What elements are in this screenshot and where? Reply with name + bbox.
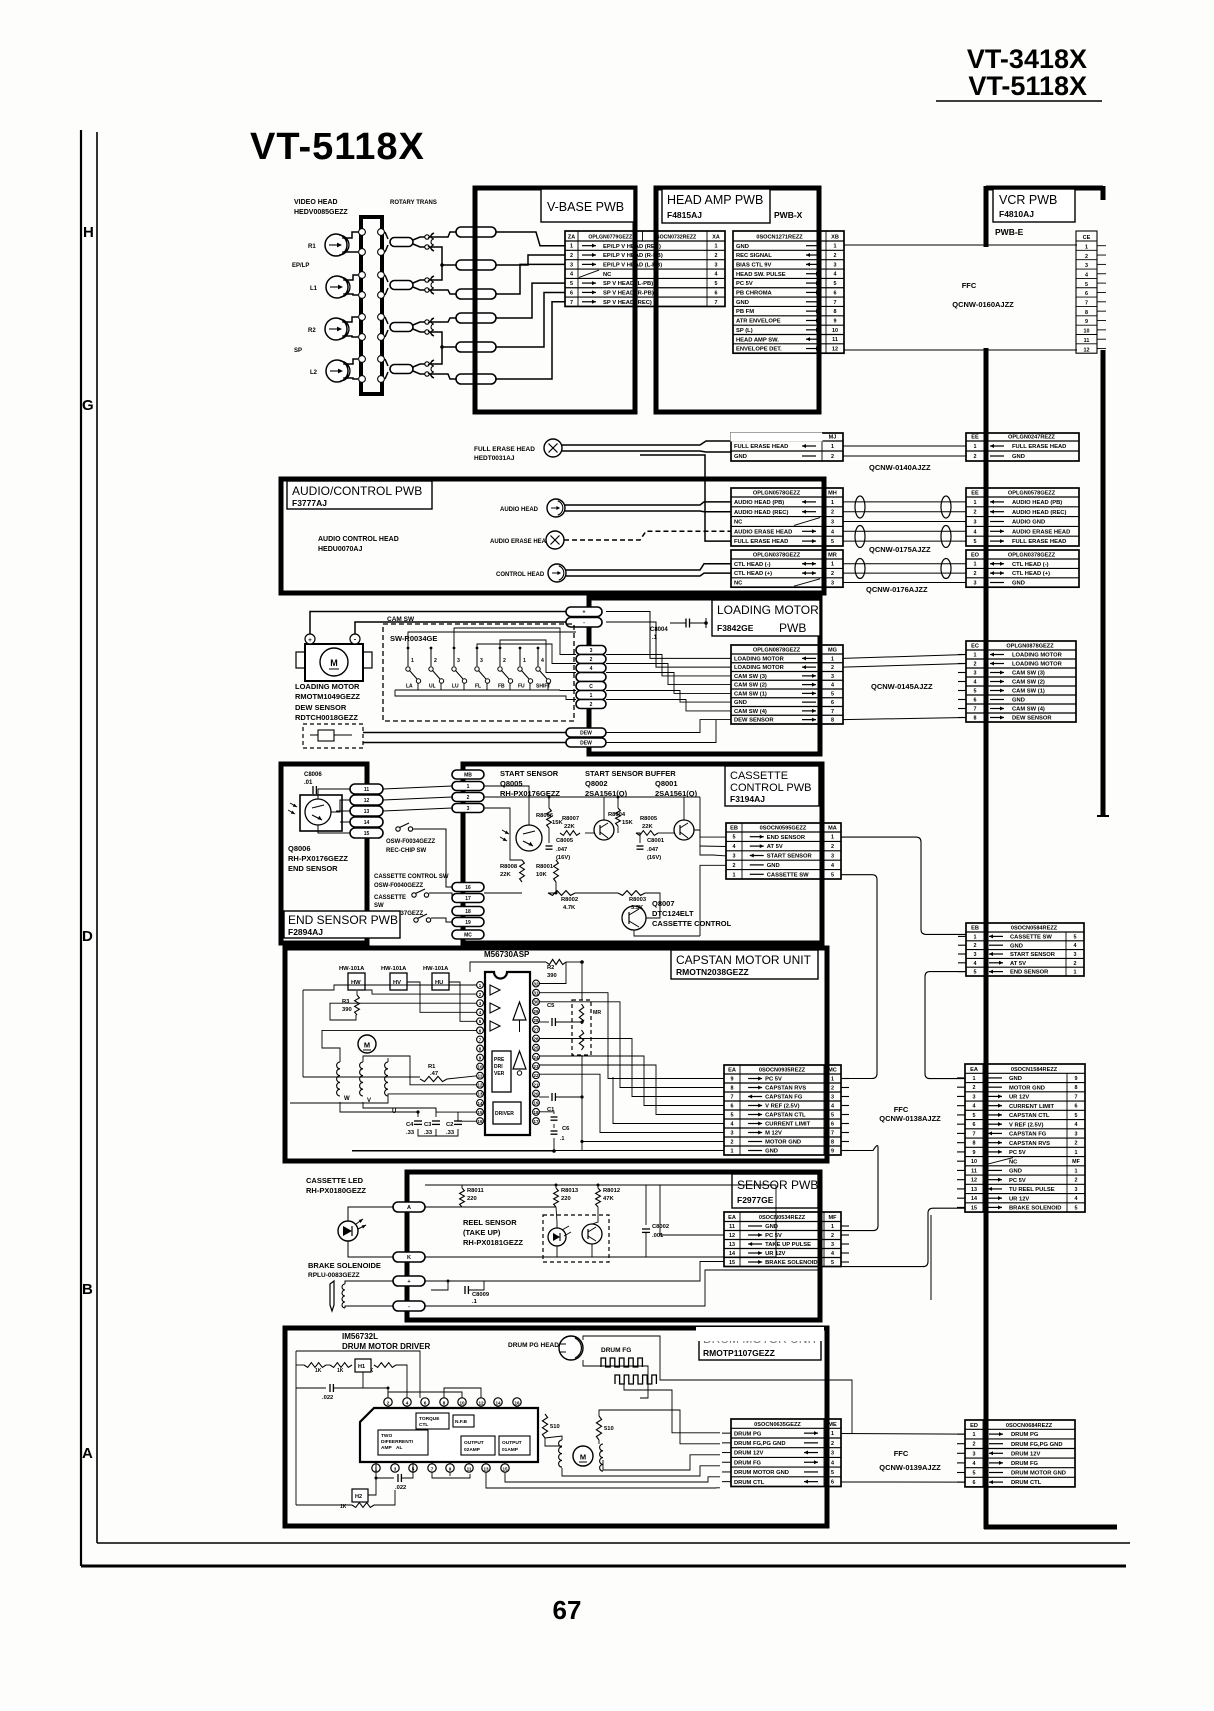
svg-text:5: 5 [731,1113,734,1119]
svg-text:9: 9 [1075,1076,1078,1082]
svg-text:2: 2 [590,702,593,708]
svg-text:5: 5 [831,1113,834,1119]
svg-text:DEW SENSOR: DEW SENSOR [1012,716,1052,722]
svg-text:TWO: TWO [381,1433,392,1439]
svg-text:11: 11 [467,1466,472,1471]
svg-text:31: 31 [534,991,539,996]
svg-text:2: 2 [831,1441,834,1447]
capstan IC pins left [477,982,484,989]
svg-text:.33: .33 [424,1130,433,1136]
rotary transformer windings [425,235,429,239]
svg-text:EP/LP: EP/LP [292,263,309,269]
wires control head to table MR [566,564,731,570]
svg-text:NC: NC [1009,1159,1018,1165]
svg-text:PC 5V: PC 5V [765,1077,782,1083]
svg-text:NC: NC [734,520,743,526]
svg-text:3: 3 [974,952,977,958]
svg-text:.001: .001 [652,1233,664,1239]
connector pills end sensor PWB 11-15 [350,784,383,794]
connector table EC (OPLGN0878GEZZ) [958,641,1076,722]
svg-text:OPLGN0878GEZZ: OPLGN0878GEZZ [753,648,801,654]
svg-text:HW-101A: HW-101A [423,966,449,972]
svg-text:AUDIO GND: AUDIO GND [1012,520,1045,526]
svg-text:16: 16 [514,1400,520,1405]
svg-text:REEL SENSOR: REEL SENSOR [463,1218,517,1227]
svg-text:MJ: MJ [829,435,837,441]
svg-text:A: A [82,1445,93,1462]
svg-text:1: 1 [831,1224,834,1230]
svg-text:2: 2 [733,863,736,869]
svg-text:7: 7 [974,707,977,713]
svg-text:GND: GND [736,300,749,306]
svg-text:MC: MC [464,932,472,938]
svg-text:14: 14 [478,1101,483,1106]
svg-text:CASSETTE SW: CASSETTE SW [1010,935,1052,941]
svg-text:3: 3 [394,1466,397,1471]
svg-text:CAPSTAN MOTOR UNIT: CAPSTAN MOTOR UNIT [676,953,812,967]
svg-text:SW-R0034GE: SW-R0034GE [390,634,437,643]
svg-text:H1: H1 [358,1364,365,1370]
svg-text:.33: .33 [446,1130,455,1136]
svg-text:5: 5 [831,1470,834,1476]
svg-text:C8001: C8001 [647,838,665,844]
svg-text:R8007: R8007 [562,816,579,822]
transistor Q8002 [594,820,614,840]
svg-text:1: 1 [731,1149,734,1155]
svg-text:GND: GND [1012,698,1025,704]
svg-text:DRUM PG HEAD: DRUM PG HEAD [508,1342,559,1349]
svg-text:DEW SENSOR: DEW SENSOR [295,703,347,712]
svg-text:01AMP: 01AMP [502,1447,519,1453]
label box CAPSTAN MOTOR UNIT RMOTN2038GEZZ [671,950,818,979]
block CAPSTAN MOTOR UNIT [285,948,827,1161]
svg-text:CASSETTE: CASSETTE [374,895,406,901]
wires video heads to drum ladder [345,232,358,238]
svg-text:4: 4 [973,1104,976,1110]
svg-text:GND: GND [1010,943,1023,949]
svg-text:M: M [330,658,338,668]
svg-text:START SENSOR: START SENSOR [500,769,559,778]
connector table EO (OPLGN0378GEZZ) [966,550,1079,587]
capstan internal wires [303,985,477,990]
svg-text:4: 4 [831,529,834,535]
svg-text:2: 2 [731,1140,734,1146]
svg-text:9: 9 [1085,319,1088,325]
svg-text:B: B [82,1281,93,1298]
svg-text:ZA: ZA [568,235,575,241]
svg-text:ROTARY TRANS: ROTARY TRANS [390,200,437,206]
svg-text:AUDIO HEAD (PB): AUDIO HEAD (PB) [734,500,784,506]
svg-text:32: 32 [534,981,539,986]
svg-text:.047: .047 [647,847,658,853]
svg-text:NC: NC [603,272,612,278]
FFC ribbon white mask [980,247,992,348]
svg-text:AMP: AMP [381,1445,392,1451]
svg-text:L2: L2 [310,370,318,376]
capstan wires to table EA [539,993,724,1079]
connector table EA (0SOCN1584REZZ) [957,1064,1085,1212]
svg-text:CAPSTAN FG: CAPSTAN FG [765,1095,803,1101]
svg-text:11: 11 [1084,338,1090,344]
connector pills sensor PWB [393,1202,425,1212]
svg-text:390: 390 [342,1007,352,1013]
svg-text:4.7K: 4.7K [563,905,576,911]
svg-text:EB: EB [971,926,979,932]
svg-text:0SOCN0584REZZ: 0SOCN0584REZZ [1011,926,1058,932]
label box END SENSOR PWB F2894AJ [284,911,400,938]
svg-text:CAPSTAN CTL: CAPSTAN CTL [1009,1113,1050,1119]
drum IC inner blocks [416,1413,449,1429]
svg-text:OPLGN0578GEZZ: OPLGN0578GEZZ [1008,491,1056,497]
svg-text:3: 3 [974,520,977,526]
svg-text:6: 6 [831,700,834,706]
svg-text:R8011: R8011 [467,1188,485,1194]
label box SENSOR PWB F2977GE [732,1174,818,1208]
svg-text:BRAKE SOLENOID: BRAKE SOLENOID [1009,1206,1062,1212]
capacitor .022 bottom and H2 [352,1489,368,1502]
svg-text:OPLGN0247REZZ: OPLGN0247REZZ [1008,435,1056,441]
svg-text:GND: GND [765,1224,778,1230]
svg-text:12: 12 [478,1083,483,1088]
svg-text:MOTOR GND: MOTOR GND [1009,1085,1045,1091]
svg-text:9: 9 [449,1466,452,1471]
svg-text:OUTPUT: OUTPUT [502,1440,522,1446]
svg-text:EP/LP V HEAD (R-PB): EP/LP V HEAD (R-PB) [603,253,663,259]
svg-text:EP/LP V HEAD (L-PB): EP/LP V HEAD (L-PB) [603,262,662,268]
connector table EA/MC (0SOCN0935REZZ) [724,1065,849,1155]
svg-text:1: 1 [973,1432,976,1438]
svg-text:25: 25 [534,1046,539,1051]
svg-text:17: 17 [534,1119,539,1124]
svg-text:HEAD AMP SW.: HEAD AMP SW. [736,337,779,343]
svg-text:3: 3 [974,581,977,587]
svg-text:11: 11 [729,1224,735,1230]
svg-text:13: 13 [483,1466,489,1471]
svg-text:0SOCN0935REZZ: 0SOCN0935REZZ [759,1068,806,1074]
svg-text:.022: .022 [322,1395,333,1401]
connector table EA/MF (0SOCN0534REZZ) [724,1212,849,1267]
page margin rule bottom thin [97,1542,1130,1544]
connector table EB/MA (0SOCN0595GEZZ) [726,823,841,879]
svg-text:8: 8 [834,309,837,315]
svg-text:START SENSOR: START SENSOR [1010,952,1056,958]
svg-text:C8002: C8002 [652,1224,669,1230]
svg-text:C6: C6 [562,1126,570,1132]
svg-text:RH-PX0181GEZZ: RH-PX0181GEZZ [463,1238,523,1247]
svg-text:6: 6 [973,1480,976,1486]
svg-text:1: 1 [831,444,834,450]
svg-text:EB: EB [730,826,738,832]
connector table EB (0SOCN0584REZZ) [958,923,1084,976]
svg-text:1: 1 [831,1431,834,1437]
svg-text:CAM SW (2): CAM SW (2) [1012,680,1045,686]
svg-text:BIAS CTL 9V: BIAS CTL 9V [736,262,771,268]
dew sensor [303,724,363,748]
svg-text:GND: GND [767,863,780,869]
svg-text:SW: SW [374,903,384,909]
page margin rule bottom thick [81,1565,1126,1568]
svg-text:2: 2 [503,658,506,664]
svg-text:PWB: PWB [779,621,806,635]
svg-text:1: 1 [831,1077,834,1083]
svg-text:MG: MG [828,648,837,654]
drum 510 resistors [542,1414,547,1438]
svg-text:.1: .1 [472,1299,478,1305]
svg-text:F4810AJ: F4810AJ [999,209,1034,219]
svg-text:DRI: DRI [494,1064,503,1070]
svg-text:15: 15 [364,831,370,837]
svg-text:22K: 22K [564,824,575,830]
svg-text:0SOCN0684REZZ: 0SOCN0684REZZ [1006,1423,1053,1429]
svg-text:LOADING MOTOR: LOADING MOTOR [734,665,785,671]
svg-text:1: 1 [411,658,414,664]
svg-text:EO: EO [971,553,980,559]
svg-text:VIDEO HEAD: VIDEO HEAD [294,199,338,206]
svg-text:14: 14 [364,820,370,826]
svg-text:END SENSOR PWB: END SENSOR PWB [288,913,398,927]
svg-text:PRE: PRE [494,1057,505,1063]
svg-text:510: 510 [604,1426,614,1432]
svg-text:AUDIO HEAD: AUDIO HEAD [500,507,539,513]
svg-text:4: 4 [973,1461,976,1467]
drum motor [573,1446,593,1466]
svg-text:DRUM FG: DRUM FG [1011,1461,1039,1467]
capacitor .022 left [329,1384,331,1392]
svg-text:A: A [407,1205,411,1211]
svg-text:H2: H2 [355,1494,362,1500]
svg-text:AUDIO HEAD (REC): AUDIO HEAD (REC) [734,510,788,516]
svg-text:END SENSOR: END SENSOR [1010,970,1049,976]
svg-text:HEDV0085GEZZ: HEDV0085GEZZ [294,209,348,216]
svg-text:REC-CHIP SW: REC-CHIP SW [386,848,427,854]
svg-text:16: 16 [478,1119,483,1124]
svg-text:7: 7 [831,1131,834,1137]
svg-text:5: 5 [831,1260,834,1266]
svg-text:F2977GE: F2977GE [737,1195,774,1205]
svg-text:CTL HEAD (+): CTL HEAD (+) [1012,571,1050,577]
svg-text:9: 9 [831,1149,834,1155]
label box AUDIO/CONTROL PWB F3777AJ [287,481,432,509]
svg-text:10K: 10K [536,872,547,878]
svg-text:15: 15 [729,1260,735,1266]
svg-text:R8005: R8005 [640,816,658,822]
wires MR to EO (QCNW-0176AJZZ) [843,563,966,565]
svg-text:23: 23 [534,1064,539,1069]
loading motor terminal - [350,634,360,644]
svg-text:MH: MH [828,491,837,497]
svg-text:3: 3 [1074,952,1077,958]
svg-text:MF: MF [828,1215,837,1221]
drum FG pattern 2 [615,1375,656,1384]
svg-text:CAM SW (1): CAM SW (1) [734,691,767,697]
svg-text:3: 3 [715,262,718,268]
svg-text:CAM SW: CAM SW [387,616,415,623]
svg-text:SP: SP [294,348,302,354]
svg-text:RPLU-0083GEZZ: RPLU-0083GEZZ [308,1272,360,1279]
svg-text:EP/LP V HEAD (REC): EP/LP V HEAD (REC) [603,244,661,250]
svg-text:K: K [407,1255,411,1261]
svg-text:6: 6 [715,290,718,296]
svg-text:RH-PX0180GEZZ: RH-PX0180GEZZ [306,1186,366,1195]
svg-text:PWB-E: PWB-E [995,227,1024,237]
svg-text:TAKE UP PULSE: TAKE UP PULSE [765,1242,811,1248]
svg-text:DEW: DEW [580,730,592,736]
svg-text:F4815AJ: F4815AJ [667,210,702,220]
svg-text:2: 2 [1075,1178,1078,1184]
svg-text:R8012: R8012 [603,1188,620,1194]
svg-text:2: 2 [715,253,718,259]
svg-text:0SOCN0635GEZZ: 0SOCN0635GEZZ [754,1422,801,1428]
svg-text:.022: .022 [395,1485,406,1491]
svg-text:QCNW-0176AJZZ: QCNW-0176AJZZ [866,585,928,594]
audio head [547,499,565,517]
label box CASSETTE CONTROL PWB F3194AJ [725,766,819,806]
svg-text:EA: EA [728,1215,736,1221]
svg-text:AT 5V: AT 5V [1010,961,1026,967]
cam switch bus wires [408,632,576,648]
svg-text:CAPSTAN RVS: CAPSTAN RVS [765,1086,806,1092]
svg-text:10: 10 [1084,329,1090,335]
wires rotary transformer to connector pills [429,232,456,237]
svg-text:AL: AL [396,1445,402,1451]
svg-text:10: 10 [832,328,838,334]
svg-text:47K: 47K [603,1196,614,1202]
svg-text:C: C [589,684,593,690]
wires cassette LED to pills [348,1207,393,1221]
svg-text:6: 6 [834,290,837,296]
drum FG pattern 1 [601,1358,642,1367]
resistor R8002 4.7K [548,891,575,896]
svg-text:(16V): (16V) [647,855,661,861]
svg-text:-: - [583,620,585,626]
svg-text:G: G [82,397,94,414]
svg-text:Q8006: Q8006 [288,844,311,853]
svg-text:3: 3 [831,581,834,587]
connector table MJ [731,433,843,461]
svg-text:LOADING MOTOR: LOADING MOTOR [295,682,360,691]
svg-text:GND: GND [765,1149,778,1155]
svg-text:2: 2 [831,665,834,671]
svg-text:AUDIO HEAD (PB): AUDIO HEAD (PB) [1012,500,1062,506]
svg-text:CAM SW (2): CAM SW (2) [734,683,767,689]
svg-text:6: 6 [974,698,977,704]
svg-text:VT-3418X: VT-3418X [967,44,1087,74]
svg-text:VT-5118X: VT-5118X [968,71,1087,101]
connector table CE [1076,231,1097,353]
svg-text:3: 3 [570,262,573,268]
svg-text:12: 12 [1084,347,1090,353]
block SENSOR PWB [407,1172,820,1320]
svg-text:GND: GND [1009,1076,1022,1082]
svg-text:OPLGN0378GEZZ: OPLGN0378GEZZ [1008,553,1056,559]
page margin rule left outer [80,130,82,1566]
label box VCR PWB F4810AJ [993,189,1075,222]
svg-text:AUDIO HEAD (REC): AUDIO HEAD (REC) [1012,510,1066,516]
connector table MG (OPLGN0878GEZZ) [731,645,843,724]
svg-text:OUTPUT: OUTPUT [464,1440,484,1446]
label box LOADING MOTOR PWB F3842GE [712,600,820,636]
svg-text:15: 15 [971,1205,977,1211]
drum IC pins top [384,1398,392,1406]
svg-text:15: 15 [478,1110,483,1115]
svg-text:5: 5 [974,539,977,545]
svg-text:9: 9 [834,318,837,324]
svg-text:GND: GND [1012,581,1025,587]
svg-text:26: 26 [534,1036,539,1041]
svg-text:1: 1 [834,244,837,250]
svg-text:2: 2 [973,1085,976,1091]
cassette control internal wires [484,786,529,825]
svg-text:5: 5 [831,539,834,545]
svg-text:8: 8 [831,1140,834,1146]
svg-text:2: 2 [831,571,834,577]
loading motor terminal + [305,634,315,644]
svg-text:Q8002: Q8002 [585,779,608,788]
svg-text:7: 7 [831,709,834,715]
svg-text:R8002: R8002 [561,897,578,903]
wire audio erase head to table MH row4 [564,531,731,540]
svg-text:3: 3 [457,658,460,664]
svg-text:+: + [407,1279,410,1285]
svg-text:V REF (2.5V): V REF (2.5V) [1009,1122,1044,1128]
svg-text:MC: MC [828,1068,837,1074]
svg-text:HEDT0031AJ: HEDT0031AJ [474,455,515,462]
svg-text:8: 8 [731,1086,734,1092]
svg-text:2: 2 [1085,254,1088,260]
svg-text:PC 5V: PC 5V [736,281,753,287]
svg-text:LU: LU [452,684,459,690]
svg-text:XB: XB [831,235,839,241]
svg-text:OPLGN0378GEZZ: OPLGN0378GEZZ [753,553,801,559]
block DRUM MOTOR UNIT [285,1328,827,1526]
svg-text:START SENSOR: START SENSOR [767,854,813,860]
svg-text:3: 3 [973,1094,976,1100]
svg-text:NC: NC [734,581,743,587]
wires MG to EC (QCNW-0145AJZZ) [843,655,966,659]
svg-text:1K: 1K [337,1368,344,1374]
svg-text:DRUM 12V: DRUM 12V [1011,1451,1040,1457]
svg-text:5: 5 [1074,934,1077,940]
svg-text:FFC: FFC [894,1105,909,1114]
wires cam switch box to pills [454,628,576,655]
svg-text:4: 4 [974,961,977,967]
block END SENSOR PWB [281,764,367,943]
svg-text:4: 4 [831,683,834,689]
svg-text:UL: UL [429,684,436,690]
connector pills V-BASE left edge [456,227,496,237]
svg-text:1: 1 [715,244,718,250]
svg-text:TU REEL PULSE: TU REEL PULSE [1009,1187,1055,1193]
svg-text:21: 21 [534,1082,539,1087]
svg-text:1: 1 [974,562,977,568]
svg-text:02AMP: 02AMP [464,1447,481,1453]
svg-text:FL: FL [475,684,481,690]
svg-text:4: 4 [831,1460,834,1466]
svg-text:1: 1 [1075,1168,1078,1174]
svg-text:14: 14 [729,1251,735,1257]
svg-text:7: 7 [834,300,837,306]
svg-text:DRUM FG,PG GND: DRUM FG,PG GND [1011,1442,1063,1448]
svg-text:R8003: R8003 [629,897,647,903]
svg-text:13: 13 [971,1187,977,1193]
svg-text:FULL ERASE HEAD: FULL ERASE HEAD [734,444,788,450]
svg-text:DRUM MOTOR GND: DRUM MOTOR GND [1011,1471,1066,1477]
svg-text:4: 4 [570,272,573,278]
svg-text:QCNW-0138AJZZ: QCNW-0138AJZZ [879,1114,941,1123]
svg-text:4: 4 [974,529,977,535]
label box V-BASE PWB [541,189,634,222]
svg-text:10: 10 [459,1400,465,1405]
